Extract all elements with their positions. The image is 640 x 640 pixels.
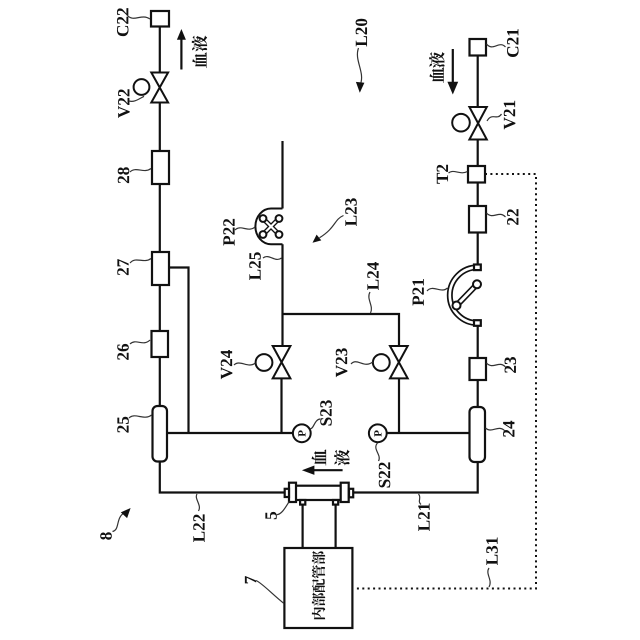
leader 27 <box>130 259 151 264</box>
leader L22 <box>196 494 199 511</box>
wire: dialyzer to internal piping (left) <box>302 505 304 548</box>
letter P in S23 <box>298 430 305 436</box>
wire: 27 to 26 <box>159 285 161 331</box>
wire: V24 to sensor S23 corner <box>280 378 282 434</box>
text 部 in box 7 <box>312 551 325 565</box>
pump P21 shoe bottom <box>474 320 481 326</box>
leader V24 <box>234 363 255 365</box>
valve V22 <box>151 73 168 103</box>
pressure sensor S23 <box>293 424 311 442</box>
label V24 <box>221 350 233 379</box>
text 血 (blood) near dialyzer <box>312 449 327 465</box>
wire: V23 down to S22 line <box>398 378 400 433</box>
pump P22 housing <box>255 209 282 245</box>
label L20 <box>356 19 368 47</box>
leader V21 <box>487 114 502 121</box>
wire: 26 to chamber 25 <box>159 357 161 406</box>
leader V22 <box>129 96 144 101</box>
text 部 in box 7 <box>312 593 325 607</box>
text 液 (blood) near dialyzer <box>334 450 349 466</box>
label P22 <box>223 219 234 246</box>
dotted line L31: T2 to internal piping 7 <box>353 174 537 589</box>
wire: P22 to V24 <box>281 244 283 346</box>
label 22 <box>507 209 518 225</box>
pump P21 shoe top <box>474 265 481 271</box>
label L25 <box>249 252 261 280</box>
container C22 <box>151 11 169 27</box>
wire: V21 to T2 <box>477 140 479 167</box>
text 液 (blood) near C22 <box>192 36 207 52</box>
container C21 <box>470 39 487 56</box>
wire: 22 to pump P21 <box>477 233 479 267</box>
chamber 27 <box>152 252 169 285</box>
dialyzer 5 left port <box>285 489 289 497</box>
dialyzer 5 bottom port right <box>333 500 338 505</box>
label 8 (blood circuit) <box>100 532 112 539</box>
chamber 28 <box>152 151 169 184</box>
dialyzer 5 left cap <box>289 483 296 502</box>
text 液 (blood) near C21 <box>429 52 444 68</box>
valve V23 <box>390 346 408 378</box>
wire: P21 to chamber 23 <box>477 326 479 358</box>
leader T2 <box>449 171 468 173</box>
arrow leader L20 <box>357 48 361 84</box>
wire: chamber 25 right to sensor line y=433 <box>167 432 293 434</box>
pressure sensor S22 <box>369 424 387 442</box>
leader L31 <box>488 568 490 587</box>
leader V23 <box>351 362 373 365</box>
label 23 <box>505 357 517 373</box>
valve V22 actuator circle <box>134 79 150 95</box>
wire: branch from 27 right side <box>169 268 189 434</box>
leader 25 <box>129 415 152 418</box>
text 血 (blood) near C21 <box>429 67 443 83</box>
label L24 <box>367 262 378 290</box>
wire: S22 to chamber 24 <box>386 432 470 434</box>
pump P21 rotor <box>453 280 482 309</box>
label C22 <box>117 8 129 36</box>
valve V21 actuator circle <box>452 114 470 132</box>
chamber 26 <box>152 331 169 357</box>
sensor T2 <box>468 166 485 183</box>
chamber 23 <box>470 358 487 380</box>
wire: dialyzer to internal piping (right) <box>335 505 337 548</box>
wire L24: junction to V23 <box>283 314 400 346</box>
label C21 <box>507 29 519 57</box>
pump P21 housing arc <box>450 267 478 323</box>
label 26 <box>117 344 129 360</box>
leader 23 <box>487 363 506 367</box>
label 27 <box>117 259 128 275</box>
pump P22 rotor <box>260 215 283 238</box>
leader C22 <box>127 15 150 19</box>
label L21 <box>418 504 429 531</box>
label 7 <box>245 576 256 583</box>
wire: V22 to chamber 28 <box>159 103 161 152</box>
valve V24 <box>273 346 291 378</box>
valve V23 actuator circle <box>373 354 390 371</box>
label L22 <box>193 514 204 542</box>
leader 5 <box>277 502 289 515</box>
wire: 23 to chamber 24 <box>477 380 479 407</box>
wire: C21 to V21 <box>477 56 479 108</box>
label 28 <box>118 167 130 183</box>
label V21 <box>504 101 516 130</box>
label L31 <box>486 538 498 565</box>
label 25 <box>117 417 129 433</box>
leader L25 <box>263 257 282 260</box>
leader S22 <box>376 443 379 461</box>
label S22 <box>379 462 391 487</box>
wire: C22 to V22 <box>159 26 161 74</box>
label V23 <box>336 348 348 377</box>
leader 7 <box>256 581 284 604</box>
dialyzer 5 bottom port left <box>300 500 305 505</box>
wire L21: chamber 24 to dialyzer outlet <box>353 462 478 493</box>
leader L21 <box>419 494 422 505</box>
label P21 <box>412 279 423 306</box>
chamber 25 (drip chamber) <box>153 406 168 462</box>
wire L25: free end down to pump P22 <box>281 141 283 209</box>
leader 26 <box>130 340 150 344</box>
blood flow arrow (up) near C22 <box>180 38 182 70</box>
label V22 <box>118 89 130 118</box>
chamber 24 (drip chamber) <box>470 407 486 462</box>
dialyzer 5 right port <box>349 489 353 498</box>
text 管 in box 7 <box>312 565 325 579</box>
wire: T2 to chamber 22 <box>477 183 479 207</box>
internal piping unit 7 <box>284 548 352 628</box>
chamber 22 <box>469 206 486 233</box>
label 5 <box>265 512 276 519</box>
wire L22: chamber 25 to dialyzer inlet <box>160 462 285 493</box>
leader 22 <box>487 213 506 217</box>
leader P22 <box>235 227 255 230</box>
label S23 <box>320 400 332 425</box>
arrow leader 8 <box>113 513 125 532</box>
valve V24 actuator circle <box>256 354 273 371</box>
wire: 28 to 27 <box>159 184 161 252</box>
label T2 <box>437 165 448 184</box>
text 血 (blood) near C22 <box>192 52 206 68</box>
blood flow arrow (down) near C21 <box>452 49 454 82</box>
label 24 <box>503 421 514 437</box>
arrow leader L23 <box>320 216 344 238</box>
leader S23 <box>310 419 320 429</box>
leader 28 <box>130 169 151 173</box>
dialyzer 5 right cap <box>341 483 349 502</box>
valve V21 <box>469 107 486 140</box>
dialyzer 5 body <box>295 486 341 500</box>
leader P21 <box>427 288 448 291</box>
text 配 in box 7 <box>312 579 325 592</box>
leader L24 <box>369 292 372 313</box>
letter P in S22 <box>374 430 381 436</box>
label L23 <box>345 198 357 226</box>
leader 24 <box>486 428 506 431</box>
leader C21 <box>487 44 506 47</box>
text 内 in box 7 <box>312 607 325 619</box>
